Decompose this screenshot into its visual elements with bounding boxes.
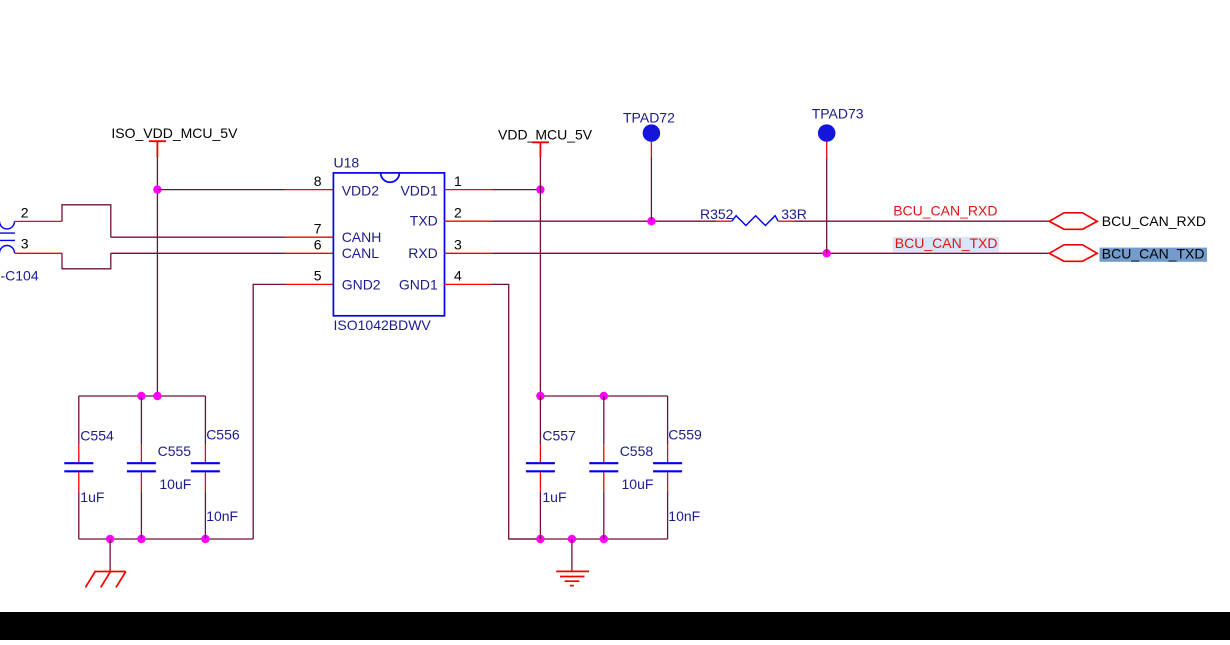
svg-text:6: 6: [314, 237, 322, 253]
pin 1 stub: [445, 189, 493, 191]
svg-text:C559: C559: [668, 426, 702, 442]
svg-text:RXD: RXD: [408, 245, 438, 261]
svg-text:5: 5: [314, 268, 322, 284]
connector -C104 pin 3 socket arc: [0, 246, 15, 254]
svg-text:CANH: CANH: [342, 229, 382, 245]
pin 4 stub: [445, 283, 492, 285]
junction VDD_MCU / pin1 wire: [536, 185, 544, 193]
svg-text:ISO1042BDWV: ISO1042BDWV: [334, 317, 432, 333]
connector -C104 pin 2 socket arc: [0, 221, 15, 229]
svg-text:10uF: 10uF: [622, 476, 654, 492]
bottom letterbox bar: [0, 612, 1230, 640]
junction top rail ISO_VDD drop: [153, 392, 161, 400]
junction right top rail C557: [536, 392, 544, 400]
wire GND2 pin5 corner: [253, 284, 286, 539]
svg-text:C556: C556: [206, 426, 240, 442]
wire connector pin 2: [15, 220, 63, 222]
svg-text:4: 4: [454, 268, 462, 284]
svg-text:10nF: 10nF: [206, 508, 238, 524]
wire connector pin 3: [15, 252, 63, 254]
svg-text:1uF: 1uF: [542, 489, 566, 505]
wire TPAD72 drop: [650, 157, 652, 221]
wire CANH pin7: [111, 236, 286, 238]
wire left cap-bank top rail: [79, 395, 206, 397]
svg-text:33R: 33R: [781, 206, 807, 222]
net-tie NT top path: [62, 205, 111, 237]
wire R352 to hexagon: [794, 220, 1049, 222]
svg-text:1uF: 1uF: [80, 489, 104, 505]
svg-text:-C104: -C104: [1, 267, 39, 283]
svg-text:1: 1: [454, 173, 462, 189]
svg-text:BCU_CAN_TXD: BCU_CAN_TXD: [1102, 245, 1205, 261]
testpoint TPAD73 pad: [818, 124, 836, 142]
highlight box BCU_CAN_TXD (pale): [893, 237, 999, 252]
svg-text:TPAD72: TPAD72: [623, 109, 675, 125]
wire left cap-bank bottom rail: [79, 538, 253, 540]
svg-text:BCU_CAN_TXD: BCU_CAN_TXD: [895, 235, 998, 251]
svg-text:BCU_CAN_RXD: BCU_CAN_RXD: [893, 203, 997, 219]
junction bottom rail C556: [201, 535, 209, 543]
wire GND1 pin4 to bottom rail: [491, 284, 540, 539]
pin 3 stub: [445, 252, 493, 254]
junction right top rail C558: [600, 392, 608, 400]
resistor R352 left stub: [716, 220, 732, 222]
power flag VDD_MCU_5V: [532, 142, 549, 157]
svg-text:C555: C555: [158, 443, 192, 459]
testpoint TPAD72 stub: [650, 142, 652, 158]
svg-text:3: 3: [454, 237, 462, 253]
pin 8 stub: [286, 189, 334, 191]
svg-text:BCU_CAN_RXD: BCU_CAN_RXD: [1102, 213, 1206, 229]
wire VDD2 pin8: [157, 189, 285, 191]
power flag ISO_VDD_MCU_5V: [149, 141, 166, 157]
pin 7 stub: [286, 236, 334, 238]
capacitor C556: [191, 396, 220, 539]
capacitor C557: [526, 396, 555, 539]
svg-text:10uF: 10uF: [159, 476, 191, 492]
wire VDD_MCU vertical drop: [539, 157, 541, 396]
svg-text:VDD_MCU_5V: VDD_MCU_5V: [498, 127, 593, 143]
ground stem (earth): [571, 539, 573, 571]
junction right bottom rail ground: [568, 535, 576, 543]
IC U18 body: [333, 173, 444, 316]
junction right bottom rail C558: [600, 535, 608, 543]
junction TPAD72 / TXD wire: [647, 217, 655, 225]
pin 5 stub: [286, 283, 334, 285]
wire CANL pin6: [111, 252, 286, 254]
svg-text:TPAD73: TPAD73: [812, 106, 864, 122]
junction bottom rail C555: [137, 535, 145, 543]
wire ISO_VDD vertical drop: [156, 157, 158, 396]
svg-text:C557: C557: [542, 428, 576, 444]
svg-text:TXD: TXD: [410, 213, 438, 229]
svg-text:C554: C554: [80, 428, 114, 444]
svg-text:VDD2: VDD2: [342, 183, 380, 199]
net-tie NT bottom path: [62, 253, 111, 268]
capacitor C554: [64, 396, 93, 539]
junction bottom rail ground: [106, 535, 114, 543]
svg-text:GND2: GND2: [342, 277, 381, 293]
pin 6 stub: [286, 252, 334, 254]
connector -C104 body lines: [0, 233, 15, 240]
svg-text:8: 8: [314, 173, 322, 189]
testpoint TPAD72 pad: [643, 124, 661, 142]
wire RXD to hexagon: [493, 252, 1050, 254]
wire TXD to R352: [493, 220, 717, 222]
svg-text:CANL: CANL: [342, 245, 380, 261]
highlight box BCU_CAN_TXD (steel): [1100, 248, 1208, 262]
off-page connector hexagon BCU_CAN_RXD: [1049, 213, 1097, 230]
svg-text:ISO_VDD_MCU_5V: ISO_VDD_MCU_5V: [111, 125, 238, 141]
wire right cap-bank bottom rail: [509, 538, 668, 540]
wire right cap-bank top rail: [540, 395, 667, 397]
svg-text:2: 2: [21, 205, 29, 221]
earth ground symbol: [556, 571, 589, 585]
wire pin1 to VDD_MCU_5V: [493, 189, 541, 191]
ground stem (chassis): [109, 539, 111, 572]
svg-text:7: 7: [314, 220, 322, 236]
wire TPAD73 drop: [826, 157, 828, 253]
svg-text:10nF: 10nF: [668, 508, 700, 524]
junction right bottom rail C557: [536, 535, 544, 543]
resistor R352 right stub: [778, 220, 794, 222]
svg-text:U18: U18: [334, 155, 360, 171]
svg-text:2: 2: [454, 204, 462, 220]
testpoint TPAD73 stub: [826, 142, 828, 158]
junction TPAD73 / RXD wire: [823, 249, 831, 257]
capacitor C558: [589, 396, 618, 539]
pin 2 stub: [445, 220, 493, 222]
svg-text:R352: R352: [700, 206, 734, 222]
svg-text:C558: C558: [620, 443, 654, 459]
off-page connector hexagon BCU_CAN_TXD: [1049, 245, 1097, 261]
chassis ground symbol: [85, 572, 125, 588]
junction top rail C555: [137, 392, 145, 400]
capacitor C555: [127, 396, 156, 539]
svg-text:VDD1: VDD1: [400, 183, 438, 199]
svg-text:GND1: GND1: [399, 277, 438, 293]
junction ISO_VDD / pin8 wire: [153, 185, 161, 193]
capacitor C559: [653, 396, 682, 539]
resistor R352 zigzag: [732, 216, 778, 226]
svg-text:3: 3: [21, 236, 29, 252]
